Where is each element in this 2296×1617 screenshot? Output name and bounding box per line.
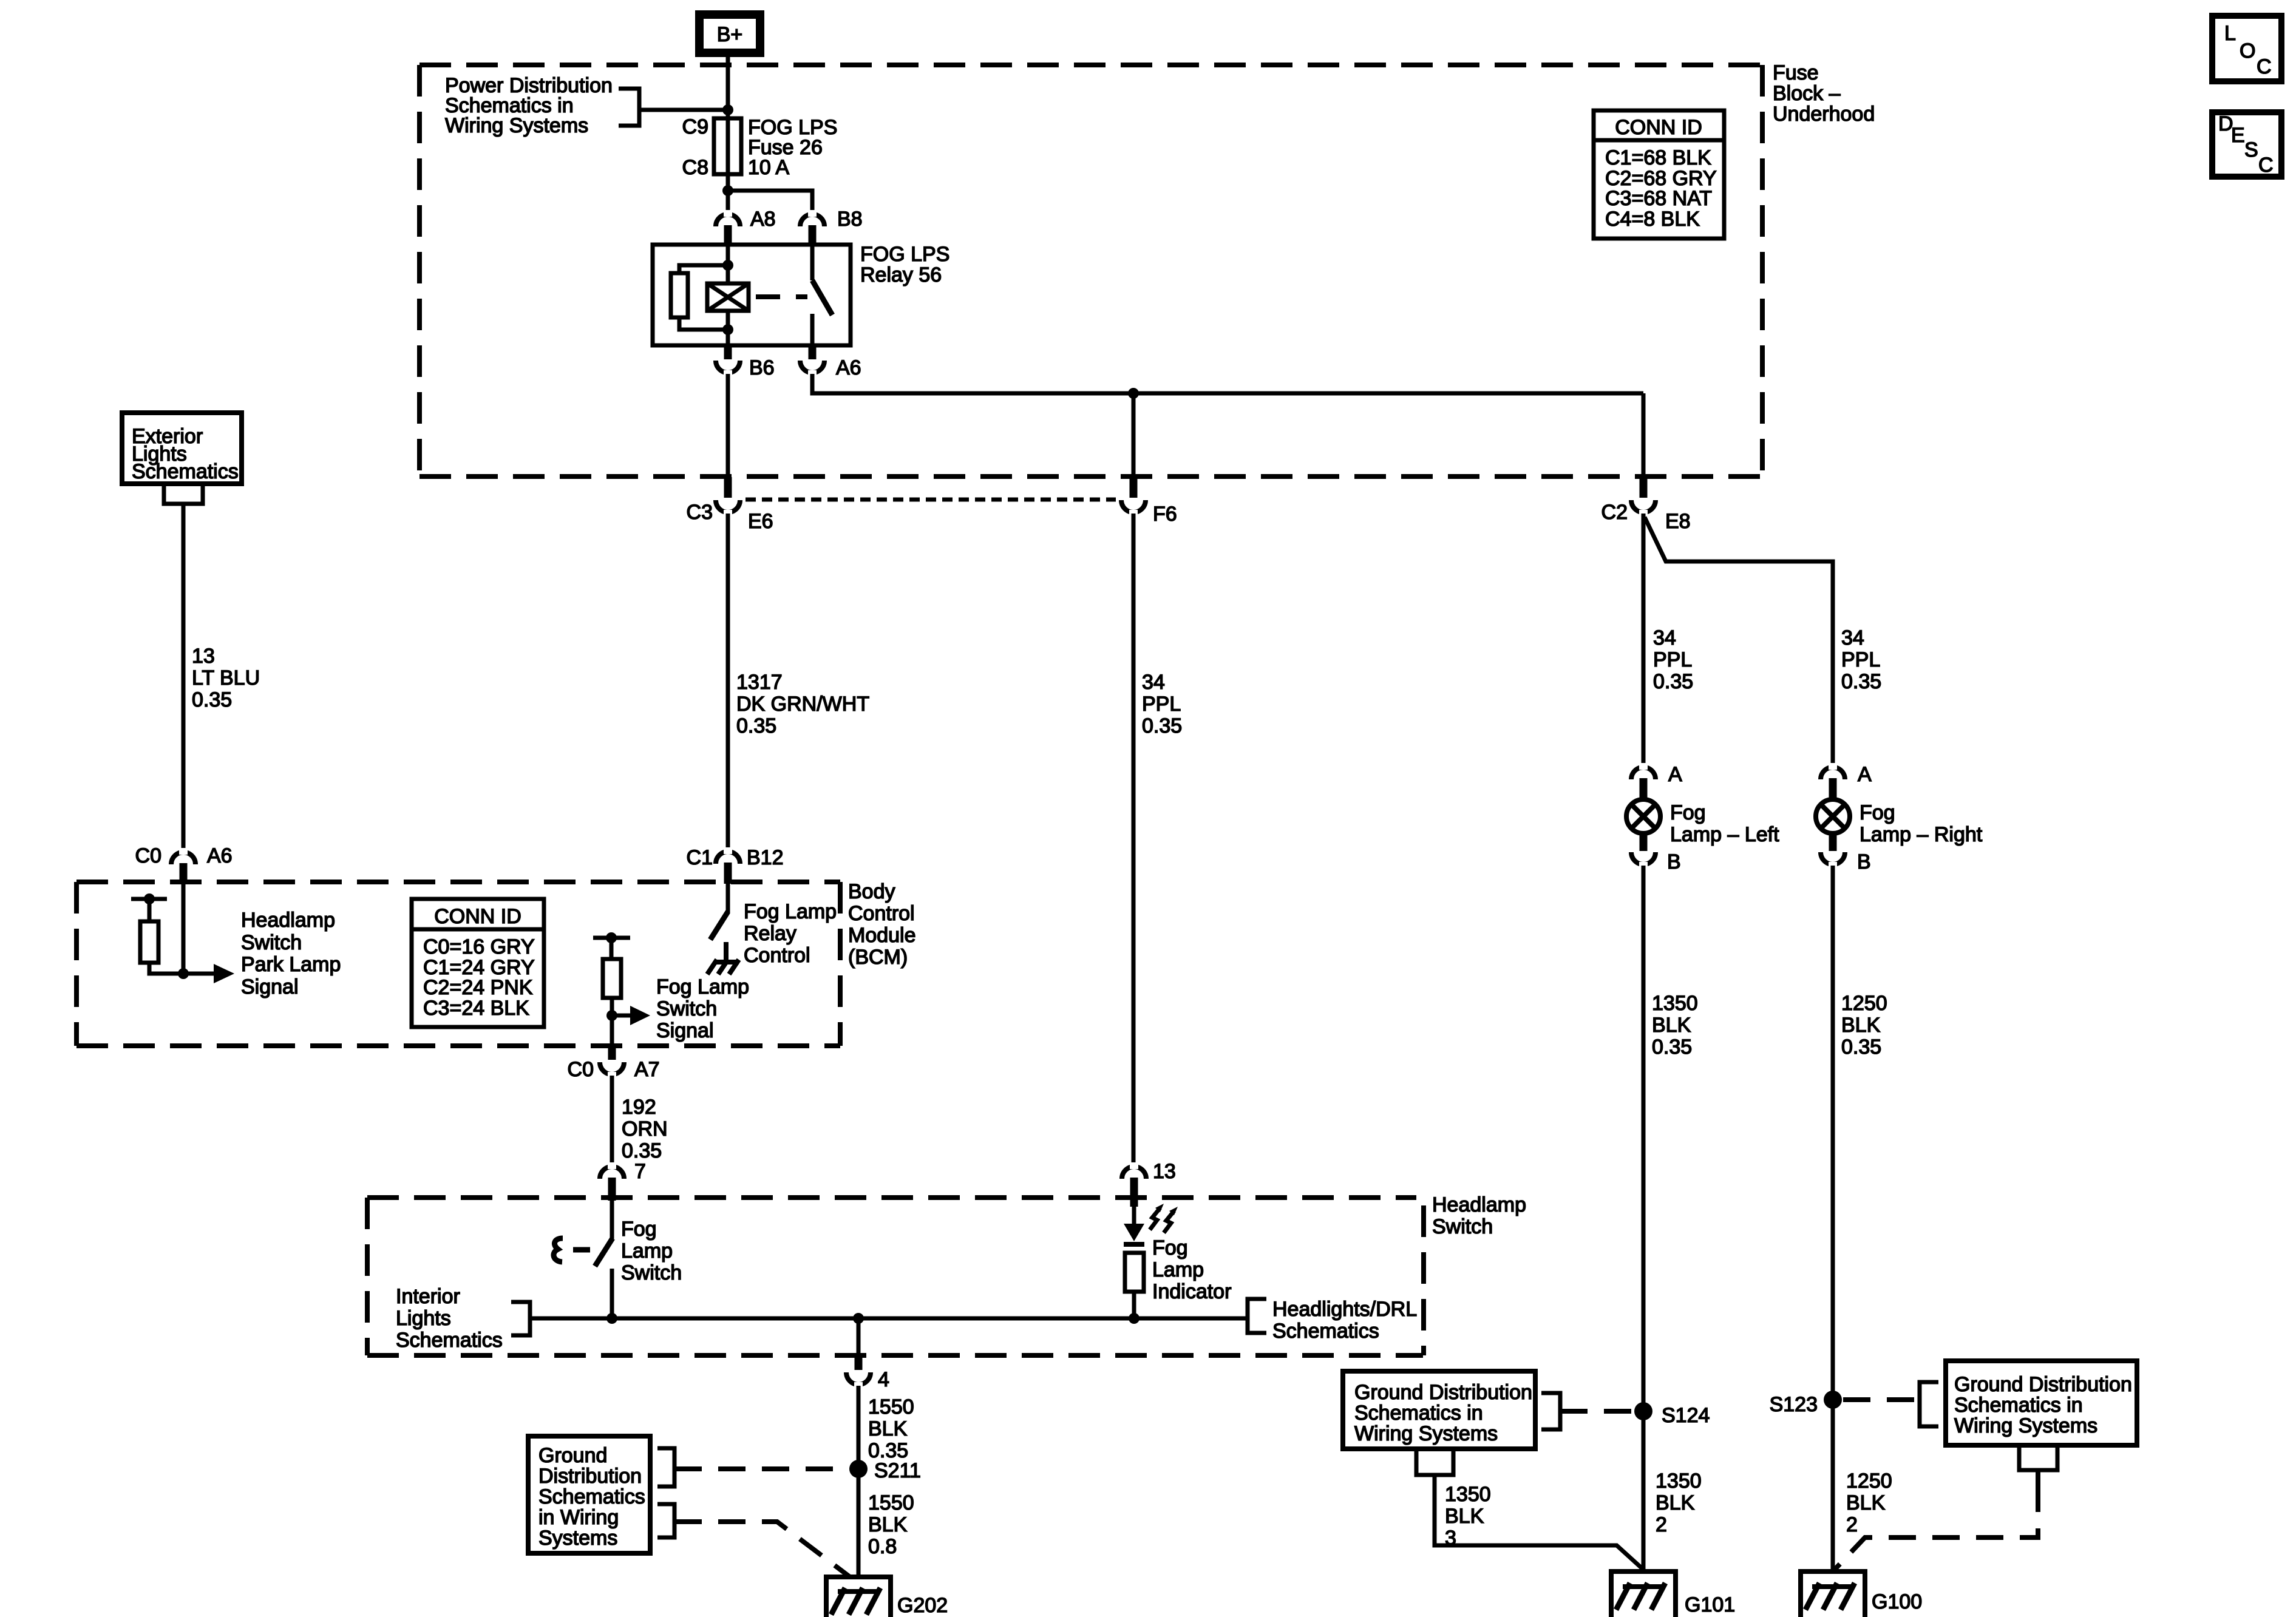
- svg-text:A: A: [1858, 763, 1872, 786]
- svg-text:1250: 1250: [1846, 1470, 1892, 1493]
- svg-text:Systems: Systems: [538, 1527, 617, 1550]
- svg-text:Ground Distribution: Ground Distribution: [1354, 1381, 1532, 1404]
- wire label 1250 BLK 0.35: [1841, 992, 1887, 1059]
- label FOG LPS Fuse 26 10 A: [748, 116, 837, 179]
- label Fog Lamp Left: [1670, 801, 1779, 846]
- svg-text:1350: 1350: [1652, 992, 1698, 1015]
- svg-text:O: O: [2240, 39, 2255, 63]
- svg-text:B6: B6: [749, 356, 775, 379]
- svg-text:2: 2: [1846, 1513, 1858, 1536]
- label Fog Lamp Switch: [621, 1218, 682, 1284]
- svg-text:S: S: [2244, 138, 2258, 161]
- relay coil element: [707, 283, 749, 311]
- BCM relay control switch: [710, 884, 728, 940]
- label Fog Lamp Relay Control: [744, 900, 837, 967]
- connector C2 E8: [1631, 393, 1656, 517]
- connector C1 B12: [716, 847, 740, 884]
- wire bus to connector 4: [857, 1318, 861, 1355]
- label Headlamp Switch: [1432, 1193, 1526, 1238]
- svg-text:2: 2: [1656, 1513, 1667, 1536]
- svg-text:C2: C2: [1601, 501, 1628, 524]
- wire coil bottom: [726, 311, 730, 345]
- label FOG LPS Relay 56: [860, 243, 949, 286]
- svg-text:Park Lamp: Park Lamp: [241, 953, 341, 976]
- svg-text:0.35: 0.35: [1841, 1036, 1881, 1059]
- svg-text:Body: Body: [848, 880, 895, 903]
- bracket power distribution: [619, 89, 639, 126]
- svg-text:Distribution: Distribution: [538, 1465, 642, 1488]
- svg-text:34: 34: [1841, 626, 1864, 649]
- node coil top junction: [722, 260, 733, 271]
- splice S124: [1634, 1402, 1652, 1420]
- svg-text:Control: Control: [744, 944, 810, 967]
- svg-text:CONN ID: CONN ID: [434, 905, 521, 928]
- leader stub below right bracket: [2036, 1470, 2040, 1485]
- svg-text:Switch: Switch: [1432, 1215, 1493, 1238]
- CONN ID table BCM: [412, 899, 544, 1027]
- fuse block underhood dashed box: [419, 65, 1762, 476]
- svg-text:Indicator: Indicator: [1152, 1280, 1231, 1303]
- wire E8 to left fog lamp: [1642, 514, 1646, 765]
- svg-text:BLK: BLK: [1841, 1014, 1881, 1037]
- wire 4 to G202: [857, 1386, 861, 1590]
- svg-text:C2=24 PNK: C2=24 PNK: [423, 976, 533, 999]
- svg-text:BLK: BLK: [1846, 1491, 1886, 1514]
- svg-text:Headlamp: Headlamp: [1432, 1193, 1526, 1216]
- B+ battery feed symbol: [699, 15, 760, 53]
- wire 1350 BLK 3 to G101: [1435, 1475, 1643, 1569]
- LOC box: [2212, 16, 2281, 81]
- wire power distribution tap: [639, 108, 728, 112]
- svg-text:C3=24 BLK: C3=24 BLK: [423, 997, 529, 1020]
- arrow park lamp signal: [183, 964, 234, 983]
- svg-text:C0: C0: [135, 844, 161, 867]
- svg-text:C: C: [2257, 55, 2272, 78]
- svg-text:A7: A7: [634, 1058, 660, 1081]
- svg-text:Wiring Systems: Wiring Systems: [1354, 1422, 1498, 1445]
- connector C0 A7: [600, 1044, 624, 1079]
- wire exterior lights to C0 A6: [182, 504, 186, 849]
- svg-text:Relay: Relay: [744, 922, 796, 945]
- splice S123: [1824, 1391, 1842, 1409]
- svg-text:G100: G100: [1872, 1590, 1922, 1613]
- relay switch contact: [812, 245, 832, 345]
- svg-text:E6: E6: [748, 510, 773, 533]
- svg-text:Wiring Systems: Wiring Systems: [1954, 1414, 2097, 1437]
- svg-text:Signal: Signal: [241, 975, 299, 998]
- connector C0 A6 headlamp switch: [171, 848, 195, 884]
- ground G100: [1801, 1571, 1865, 1617]
- svg-text:Lights: Lights: [396, 1307, 451, 1330]
- svg-text:B12: B12: [747, 846, 784, 869]
- svg-text:13: 13: [1153, 1160, 1176, 1183]
- svg-text:PPL: PPL: [1653, 648, 1692, 671]
- wire left lamp to G101: [1642, 866, 1646, 1588]
- svg-text:B8: B8: [837, 208, 863, 231]
- svg-text:0.35: 0.35: [1841, 670, 1881, 693]
- wire right lamp to G100: [1831, 866, 1835, 1588]
- svg-text:F6: F6: [1153, 503, 1177, 526]
- svg-text:Fog: Fog: [1670, 801, 1706, 824]
- bracket G202 leader: [657, 1504, 674, 1537]
- svg-text:Fuse: Fuse: [1773, 61, 1819, 84]
- dotted harness line E6 to F6: [746, 498, 1116, 502]
- node fog switch T junction: [606, 932, 617, 943]
- node park lamp signal junction: [178, 968, 189, 979]
- connector A8: [716, 210, 740, 246]
- wire B+ to fuse: [726, 57, 730, 120]
- svg-text:Fog: Fog: [1860, 801, 1895, 824]
- park lamp T bar: [131, 897, 167, 901]
- svg-text:C8: C8: [682, 156, 708, 179]
- svg-text:192: 192: [622, 1096, 656, 1119]
- wire label 192 ORN 0.35: [622, 1096, 668, 1162]
- dashed leader to G100: [1833, 1485, 2038, 1571]
- wire label 1350 BLK 2: [1656, 1470, 1702, 1536]
- svg-text:C4=8 BLK: C4=8 BLK: [1605, 208, 1700, 231]
- svg-text:C: C: [2258, 154, 2274, 177]
- mechanical link symbol: [554, 1238, 590, 1262]
- wire A6 into BCM: [182, 884, 186, 974]
- bracket below ground distribution right: [2019, 1445, 2057, 1470]
- wire label 1350 BLK 0.35: [1652, 992, 1698, 1059]
- node bus junction fog switch: [606, 1313, 617, 1324]
- label Fog Lamp Indicator: [1152, 1236, 1231, 1303]
- svg-text:3: 3: [1445, 1527, 1456, 1550]
- resistor headlamp switch park lamp: [140, 921, 158, 963]
- svg-text:S211: S211: [874, 1459, 921, 1482]
- svg-text:0.35: 0.35: [1653, 670, 1693, 693]
- wire T to resistor: [610, 938, 614, 959]
- svg-text:L: L: [2224, 22, 2236, 45]
- connector 7: [600, 1162, 624, 1201]
- wire switch common bus: [530, 1317, 1248, 1321]
- svg-text:Lamp – Right: Lamp – Right: [1860, 823, 1983, 846]
- dashed leader to G202: [674, 1522, 850, 1577]
- connector C3 E6: [716, 374, 740, 517]
- connector A6: [800, 345, 824, 377]
- svg-text:C0=16 GRY: C0=16 GRY: [423, 935, 535, 958]
- svg-text:Module: Module: [848, 924, 916, 947]
- svg-text:1550: 1550: [868, 1395, 914, 1419]
- exterior lights schematics box: [122, 413, 242, 484]
- node junction relay branch: [722, 185, 733, 196]
- svg-text:Headlamp: Headlamp: [241, 909, 335, 932]
- svg-text:0.35: 0.35: [1652, 1036, 1692, 1059]
- svg-text:Switch: Switch: [656, 997, 717, 1020]
- svg-text:C3=68 NAT: C3=68 NAT: [1605, 187, 1712, 210]
- svg-text:34: 34: [1653, 626, 1676, 649]
- svg-text:Schematics: Schematics: [132, 460, 239, 483]
- wire T to resistor: [148, 899, 152, 921]
- svg-text:Switch: Switch: [621, 1261, 682, 1284]
- svg-text:4: 4: [878, 1368, 889, 1391]
- svg-text:BLK: BLK: [868, 1417, 908, 1440]
- dashed leader to S124: [1560, 1409, 1633, 1414]
- svg-text:10 A: 10 A: [748, 156, 789, 179]
- fog lamp switch signal T bar: [593, 936, 630, 940]
- svg-text:Fog Lamp: Fog Lamp: [656, 975, 749, 998]
- svg-text:13: 13: [192, 645, 215, 668]
- connector B6: [716, 345, 740, 377]
- dashed leader to S211: [674, 1466, 847, 1471]
- svg-text:Headlights/DRL: Headlights/DRL: [1272, 1298, 1417, 1321]
- svg-text:Lamp: Lamp: [621, 1239, 673, 1263]
- svg-text:BLK: BLK: [1445, 1505, 1484, 1528]
- resistor relay internal: [671, 265, 728, 330]
- connector 13: [1122, 1162, 1146, 1207]
- svg-text:Control: Control: [848, 902, 915, 925]
- svg-text:ORN: ORN: [622, 1117, 668, 1141]
- svg-text:BLK: BLK: [868, 1513, 908, 1536]
- wire A7 down to 7: [610, 1076, 614, 1165]
- svg-text:Fog: Fog: [621, 1218, 657, 1241]
- svg-text:Ground: Ground: [538, 1444, 607, 1467]
- wire resistor to junction: [610, 998, 614, 1044]
- svg-text:Switch: Switch: [241, 931, 302, 954]
- svg-text:Interior: Interior: [396, 1285, 460, 1308]
- label Headlights DRL Schematics: [1272, 1298, 1417, 1343]
- svg-text:Signal: Signal: [656, 1019, 714, 1042]
- arrow fog lamp switch signal: [612, 1006, 650, 1025]
- connector F6: [1121, 393, 1146, 517]
- label Fuse Block - Underhood: [1773, 61, 1875, 126]
- connector B fog lamp right: [1821, 852, 1845, 869]
- svg-text:Ground Distribution: Ground Distribution: [1954, 1373, 2132, 1396]
- bracket ground distribution left: [1541, 1393, 1560, 1429]
- svg-text:Underhood: Underhood: [1773, 103, 1875, 126]
- svg-text:1350: 1350: [1656, 1470, 1702, 1493]
- svg-text:C0: C0: [568, 1058, 594, 1081]
- switch fog lamp switch: [595, 1201, 613, 1318]
- svg-text:Lamp – Left: Lamp – Left: [1670, 823, 1779, 846]
- svg-text:C1: C1: [687, 846, 713, 869]
- svg-text:0.8: 0.8: [868, 1535, 897, 1558]
- svg-text:Fog Lamp: Fog Lamp: [744, 900, 837, 923]
- bracket S211 leader: [657, 1448, 674, 1486]
- splice S211: [849, 1460, 868, 1478]
- lamp fog lamp right: [1816, 799, 1850, 851]
- connector B8: [800, 210, 824, 246]
- wire label 34 PPL 0.35 indicator feed: [1142, 671, 1182, 737]
- LED arrows: [1150, 1204, 1178, 1233]
- svg-text:DK GRN/WHT: DK GRN/WHT: [736, 693, 869, 716]
- connector A fog lamp left: [1631, 763, 1656, 801]
- node park lamp T junction: [144, 893, 155, 904]
- svg-text:E8: E8: [1665, 510, 1691, 533]
- dashed actuator link: [756, 294, 807, 299]
- svg-text:E: E: [2231, 124, 2245, 147]
- svg-text:in Wiring: in Wiring: [538, 1506, 619, 1529]
- node junction at power distribution tap: [722, 104, 733, 115]
- svg-text:1550: 1550: [868, 1491, 914, 1514]
- svg-text:1250: 1250: [1841, 992, 1887, 1015]
- svg-text:Schematics in: Schematics in: [1354, 1402, 1483, 1425]
- label Fog Lamp Switch Signal: [656, 975, 749, 1042]
- LED fog lamp indicator: [1124, 1207, 1144, 1244]
- wire branch to B8: [728, 191, 812, 213]
- connector 4: [846, 1354, 871, 1389]
- label Fog Lamp Right: [1860, 801, 1983, 846]
- label Body Control Module BCM: [848, 880, 916, 969]
- svg-text:PPL: PPL: [1142, 693, 1181, 716]
- label Power Distribution Schematics in Wiring Systems: [445, 74, 613, 137]
- svg-text:B+: B+: [717, 23, 743, 46]
- svg-text:BLK: BLK: [1656, 1491, 1695, 1514]
- svg-text:0.35: 0.35: [1142, 714, 1182, 737]
- connector A fog lamp right: [1821, 763, 1845, 801]
- wire A6 to lamp feed bus: [812, 374, 1643, 393]
- node coil bottom junction: [722, 324, 733, 335]
- DESC box: [2212, 112, 2281, 177]
- svg-text:BLK: BLK: [1652, 1014, 1691, 1037]
- bracket interior lights: [511, 1302, 530, 1335]
- svg-text:S123: S123: [1770, 1393, 1818, 1416]
- svg-text:Schematics in: Schematics in: [1954, 1394, 2083, 1417]
- wire label 34 PPL 0.35 right: [1841, 626, 1881, 693]
- connector B fog lamp left: [1631, 852, 1656, 869]
- svg-text:C3: C3: [687, 501, 713, 524]
- svg-text:1317: 1317: [736, 671, 783, 694]
- svg-text:0.35: 0.35: [192, 688, 232, 711]
- svg-text:S124: S124: [1662, 1404, 1710, 1427]
- bracket below ground distribution left: [1416, 1449, 1453, 1475]
- dashed leader S123 to box: [1843, 1397, 1920, 1402]
- svg-text:0.35: 0.35: [736, 714, 776, 737]
- svg-text:G101: G101: [1685, 1593, 1735, 1616]
- bracket below exterior lights box: [164, 484, 203, 504]
- svg-text:Relay 56: Relay 56: [860, 263, 942, 286]
- svg-text:B: B: [1857, 850, 1871, 873]
- svg-text:LT BLU: LT BLU: [192, 666, 260, 690]
- svg-text:Wiring Systems: Wiring Systems: [445, 114, 588, 137]
- ground G202: [826, 1577, 891, 1617]
- wire label 1550 BLK 0.35: [868, 1395, 914, 1462]
- svg-text:A8: A8: [750, 208, 776, 231]
- relay coil feed wire: [726, 245, 730, 283]
- svg-text:A: A: [1668, 763, 1682, 786]
- svg-text:7: 7: [634, 1160, 646, 1183]
- wire resistor to junction: [149, 963, 183, 974]
- node bus junction ground lead: [853, 1313, 864, 1324]
- svg-text:Schematics: Schematics: [396, 1329, 503, 1352]
- bracket ground distribution right: [1920, 1382, 1938, 1426]
- ground distribution box bottom left: [528, 1436, 650, 1553]
- svg-text:Fog: Fog: [1152, 1236, 1188, 1259]
- label Interior Lights Schematics: [396, 1285, 503, 1352]
- wire E8 diagonal to right fog lamp: [1645, 517, 1833, 765]
- svg-text:0.35: 0.35: [622, 1139, 662, 1162]
- ground internal BCM: [707, 942, 739, 974]
- node junction F6 branch: [1128, 388, 1139, 399]
- svg-text:(BCM): (BCM): [848, 946, 908, 969]
- relay K56 FOG LPS box: [653, 245, 851, 345]
- ground G101: [1611, 1571, 1676, 1617]
- svg-text:B: B: [1667, 850, 1681, 873]
- node fog switch signal junction: [606, 1010, 617, 1021]
- lamp fog lamp left: [1626, 799, 1660, 851]
- svg-text:34: 34: [1142, 671, 1165, 694]
- svg-text:C1=68 BLK: C1=68 BLK: [1605, 146, 1711, 169]
- headlamp switch dashed box: [367, 1198, 1424, 1355]
- resistor fog lamp switch signal: [603, 959, 621, 998]
- svg-text:PPL: PPL: [1841, 648, 1880, 671]
- svg-text:A6: A6: [207, 844, 233, 867]
- wire label 1550 BLK 0.8: [868, 1491, 914, 1558]
- wire F6 down to headlamp switch 13: [1132, 514, 1136, 1165]
- svg-text:Block –: Block –: [1773, 82, 1841, 105]
- wire label 1250 BLK 2: [1846, 1470, 1892, 1536]
- BCM dashed box: [76, 882, 840, 1046]
- wire indicator to bus: [1132, 1292, 1136, 1318]
- fuse F26 FOG LPS 10A: [714, 118, 741, 174]
- svg-text:Schematics: Schematics: [538, 1485, 645, 1508]
- ground distribution box right: [1946, 1361, 2137, 1445]
- wire E6 down to C1 B12: [726, 514, 730, 849]
- ground distribution box left: [1343, 1371, 1535, 1449]
- wire label 34 PPL 0.35 left: [1653, 626, 1693, 693]
- resistor fog lamp indicator: [1125, 1253, 1144, 1292]
- svg-text:A6: A6: [836, 356, 861, 379]
- wire label 13 LT BLU 0.35: [192, 645, 260, 711]
- svg-text:Schematics: Schematics: [1272, 1320, 1379, 1343]
- svg-text:G202: G202: [897, 1594, 948, 1617]
- CONN ID table fuse block: [1594, 110, 1724, 239]
- node bus junction indicator: [1129, 1313, 1140, 1324]
- wire label 1317 DK GRN/WHT 0.35: [736, 671, 869, 737]
- svg-text:CONN ID: CONN ID: [1615, 116, 1702, 139]
- label Headlamp Switch Park Lamp Signal: [241, 909, 341, 998]
- svg-text:Lamp: Lamp: [1152, 1258, 1204, 1281]
- bracket headlights DRL: [1248, 1299, 1266, 1333]
- svg-text:FOG LPS: FOG LPS: [860, 243, 949, 266]
- wire fuse to relay split: [726, 174, 730, 212]
- svg-text:C9: C9: [682, 115, 708, 138]
- wire label 1350 BLK 3: [1445, 1483, 1491, 1550]
- svg-text:1350: 1350: [1445, 1483, 1491, 1506]
